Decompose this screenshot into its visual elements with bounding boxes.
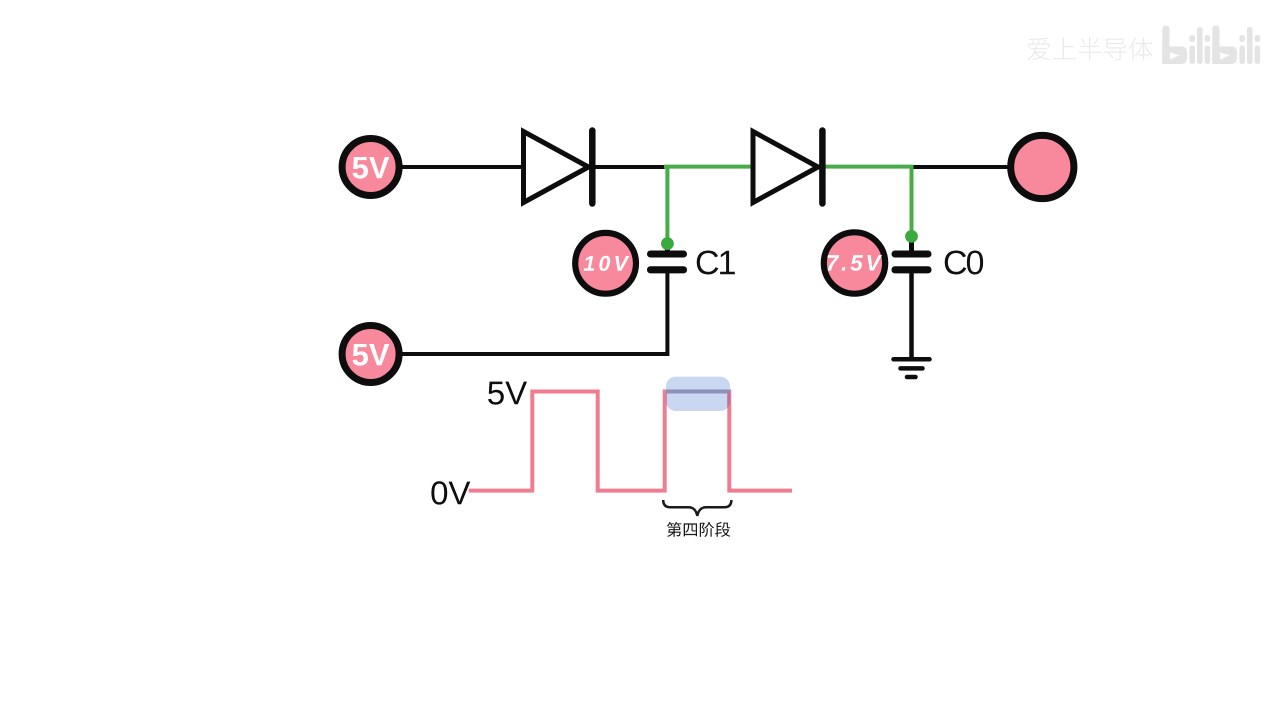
wire: stub to C0 top plate (909, 235, 914, 252)
waveform axis label 5V (488, 382, 527, 405)
wire: stub to C1 top plate (665, 242, 670, 252)
source V1 circle 5V top-left (342, 139, 399, 196)
capacitor C0 (892, 251, 932, 274)
voltage bubble 10V (575, 233, 636, 294)
watermark bilibili logo (1162, 26, 1260, 65)
output node circle (right) (1011, 135, 1074, 198)
capacitor C1 (647, 251, 687, 274)
label C0 (945, 251, 983, 275)
node A junction dot (661, 237, 674, 250)
label 第四阶段 (667, 522, 731, 537)
wire: node A down to C1 (green) (665, 165, 669, 242)
diode D2 (753, 131, 822, 204)
wire: diode D1 to node A (black) (592, 165, 665, 169)
wire: node A to diode D2 (green) (664, 165, 753, 169)
ground (894, 359, 930, 377)
wire: source V1 to diode D1 (402, 165, 524, 169)
label C1 (697, 251, 735, 275)
watermark text 爱上半导体 (1027, 37, 1152, 60)
waveform axis label 0V (431, 481, 470, 504)
brace under fourth stage (663, 500, 731, 516)
wire: C1 bottom to source V2 (402, 272, 667, 354)
source V2 circle 5V bottom-left (342, 326, 399, 383)
node B junction dot (905, 230, 918, 243)
highlight box on fourth stage pulse (666, 377, 730, 411)
voltage bubble 7.5V (824, 232, 885, 293)
waveform square wave trace (469, 392, 792, 491)
wire: C0 bottom to ground (909, 272, 914, 359)
wire: diode D2 to node B (green) (822, 165, 913, 169)
wire: node B to output circle (black) (911, 165, 1012, 169)
diode D1 (524, 131, 593, 204)
wire: node B down to C0 (green) (910, 165, 914, 235)
